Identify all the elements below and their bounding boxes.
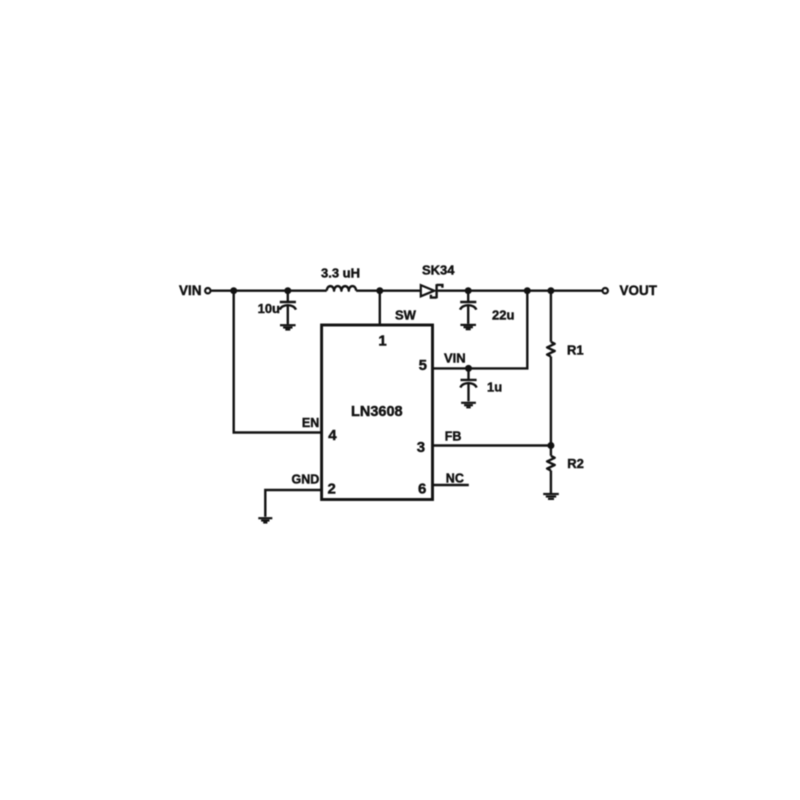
svg-text:10u: 10u bbox=[258, 301, 280, 316]
junction rail-VINpin bbox=[524, 287, 531, 294]
wire GND bbox=[265, 490, 322, 517]
junction rail-SW bbox=[376, 287, 383, 294]
svg-text:GND: GND bbox=[292, 472, 320, 486]
resistor R2 bbox=[547, 446, 555, 494]
junction rail-R1 bbox=[547, 287, 554, 294]
ground C1 bbox=[280, 325, 296, 329]
svg-text:5: 5 bbox=[419, 357, 427, 374]
capacitor C2 22u bbox=[460, 291, 476, 324]
junction rail-C2 bbox=[465, 287, 472, 294]
ground GND pin bbox=[258, 518, 272, 522]
IC U1 LN3608 box bbox=[322, 325, 433, 500]
svg-text:1: 1 bbox=[378, 333, 386, 350]
svg-text:22u: 22u bbox=[492, 307, 514, 322]
node VOUT terminal bbox=[603, 288, 608, 293]
ground C3 bbox=[461, 403, 476, 408]
svg-text:VOUT: VOUT bbox=[620, 283, 658, 298]
wire VIN rail left bbox=[211, 290, 327, 292]
svg-text:4: 4 bbox=[328, 427, 337, 444]
svg-text:NC: NC bbox=[446, 471, 464, 485]
ground C2 bbox=[460, 325, 476, 329]
svg-text:1u: 1u bbox=[487, 380, 502, 395]
capacitor C3 1u bbox=[460, 368, 476, 401]
svg-text:EN: EN bbox=[302, 416, 319, 430]
svg-text:R1: R1 bbox=[567, 342, 584, 357]
junction VINpin-C3 bbox=[465, 365, 472, 372]
inductor L1 bbox=[327, 286, 356, 291]
node VIN terminal bbox=[205, 288, 210, 293]
diode SK34 bbox=[421, 284, 443, 298]
svg-text:SW: SW bbox=[395, 308, 417, 323]
svg-text:VIN: VIN bbox=[179, 283, 202, 298]
wire FB bbox=[432, 444, 551, 446]
svg-text:SK34: SK34 bbox=[422, 262, 455, 277]
wire VIN-pin riser bbox=[432, 291, 528, 369]
svg-text:2: 2 bbox=[328, 480, 336, 497]
wire EN bbox=[234, 291, 323, 433]
ground R2 bbox=[543, 494, 559, 499]
svg-text:3: 3 bbox=[417, 439, 425, 456]
junction rail-EN bbox=[230, 287, 237, 294]
wire SW riser bbox=[379, 291, 381, 325]
svg-text:R2: R2 bbox=[567, 456, 584, 471]
svg-text:FB: FB bbox=[445, 429, 462, 443]
svg-text:LN3608: LN3608 bbox=[351, 404, 403, 420]
wire rail right bbox=[438, 290, 602, 292]
svg-text:3.3 uH: 3.3 uH bbox=[321, 265, 360, 280]
junction FB-R2 bbox=[547, 442, 554, 449]
wire rail mid bbox=[356, 290, 421, 292]
capacitor C1 10u bbox=[280, 291, 296, 325]
svg-text:VIN: VIN bbox=[444, 351, 466, 366]
wire NC stub bbox=[432, 484, 469, 486]
junction rail-C1 bbox=[284, 287, 291, 294]
resistor R1 bbox=[547, 291, 555, 446]
svg-text:6: 6 bbox=[418, 480, 426, 497]
